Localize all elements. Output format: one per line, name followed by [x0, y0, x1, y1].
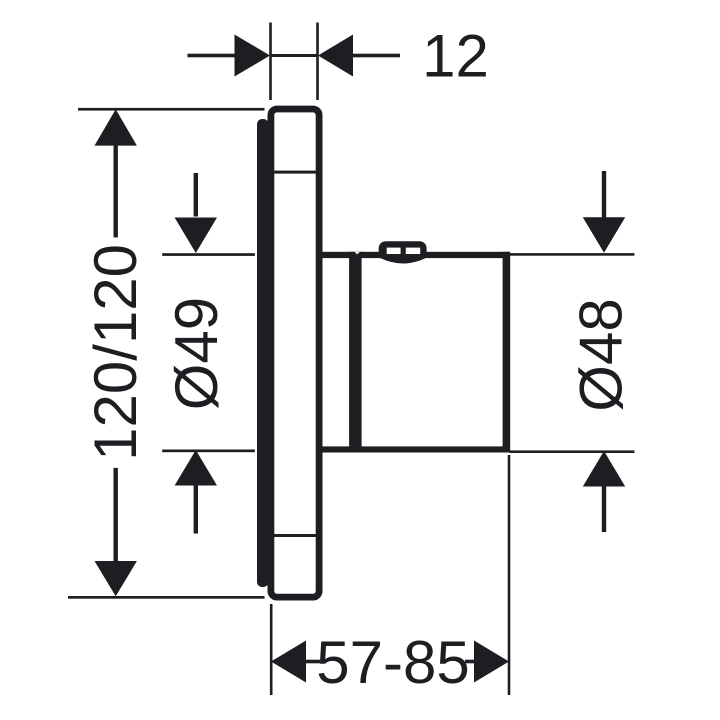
- svg-text:120/120: 120/120: [82, 244, 149, 461]
- svg-text:Ø49: Ø49: [163, 297, 230, 410]
- svg-text:12: 12: [422, 23, 489, 90]
- svg-text:Ø48: Ø48: [568, 298, 635, 411]
- svg-text:57-85: 57-85: [316, 629, 469, 696]
